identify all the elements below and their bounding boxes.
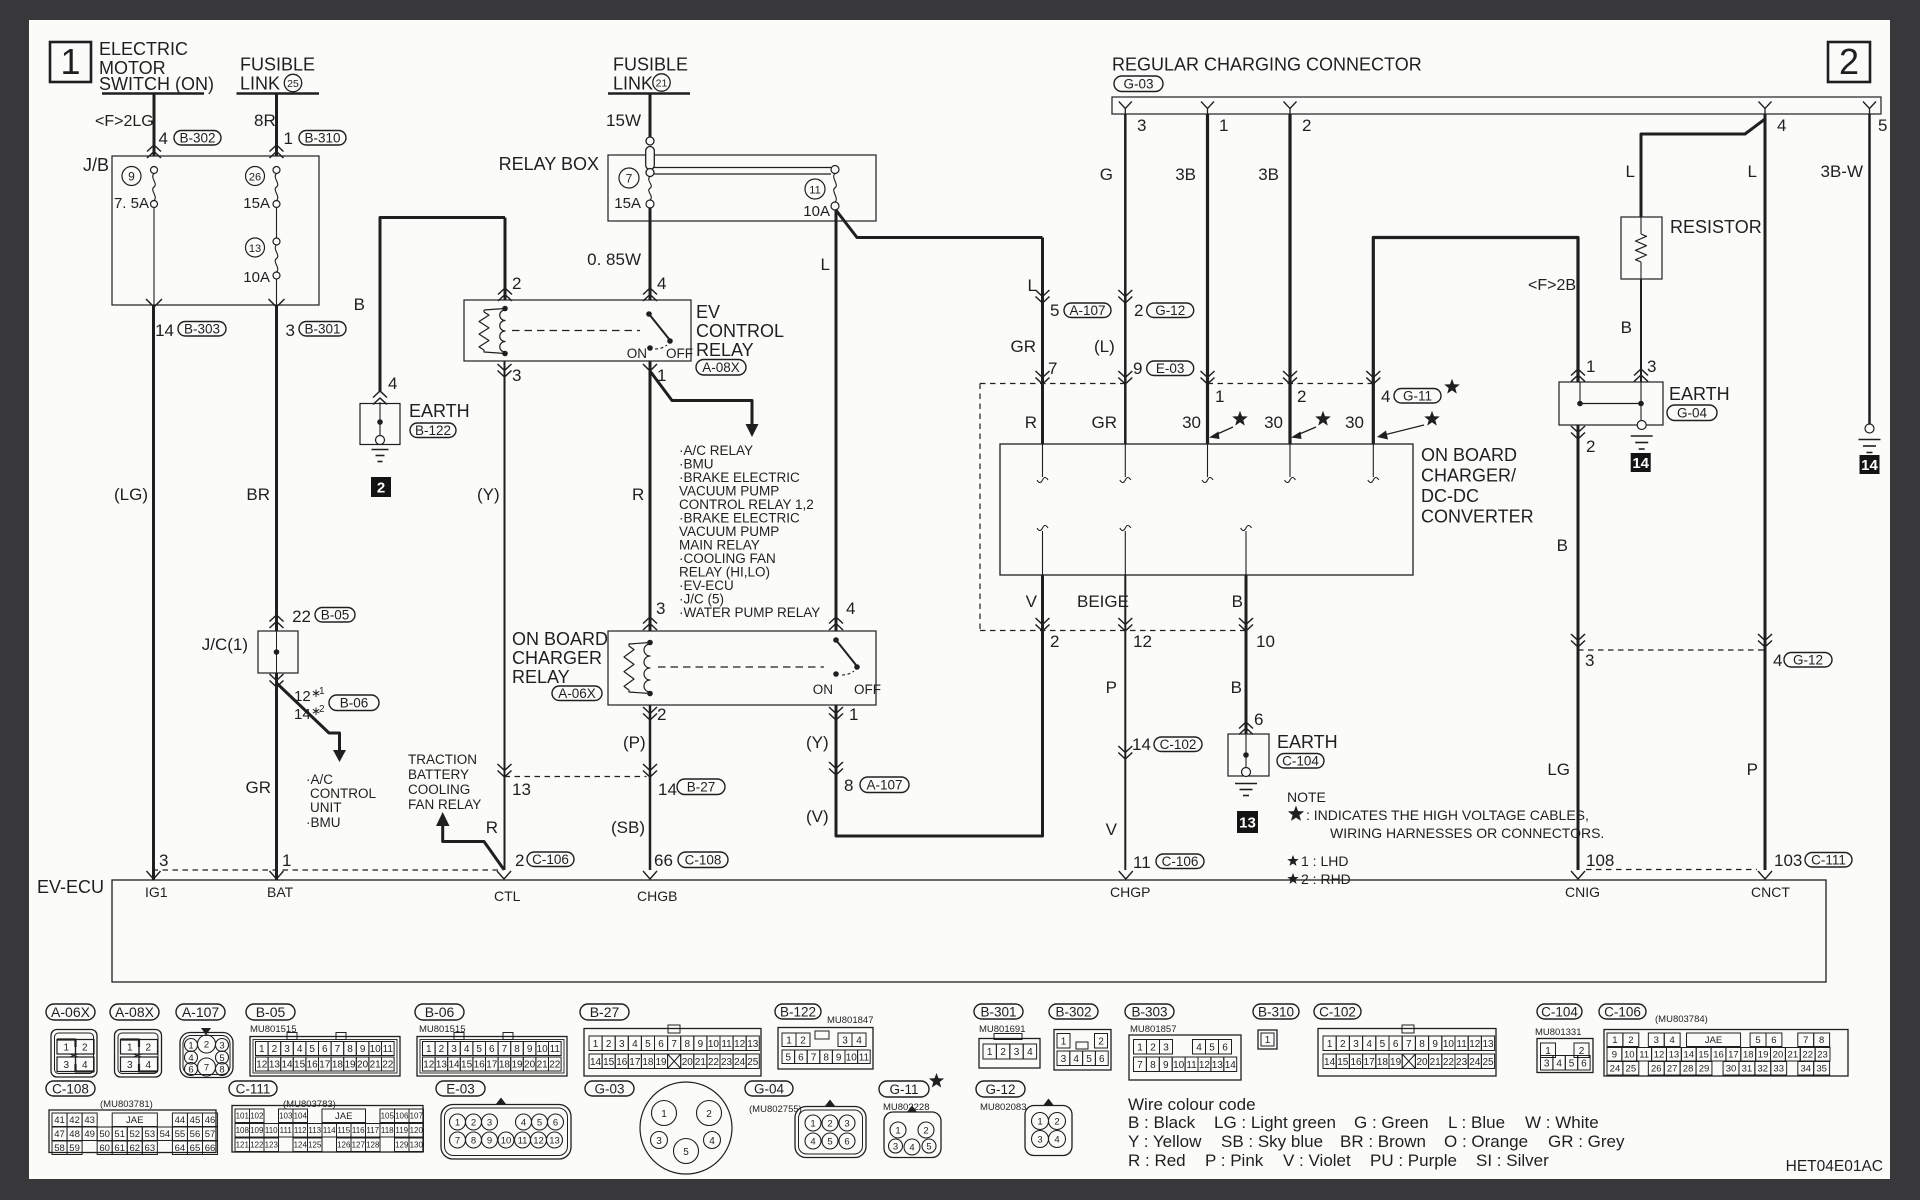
svg-text:118: 118 — [381, 1126, 394, 1135]
svg-text:6: 6 — [658, 1039, 664, 1050]
svg-text:MU802083: MU802083 — [980, 1102, 1026, 1113]
svg-text:16: 16 — [307, 1060, 319, 1071]
chevrons charger relay pin4 — [829, 617, 843, 624]
svg-text:26: 26 — [249, 172, 261, 184]
svg-text:3B-W: 3B-W — [1821, 162, 1864, 181]
svg-text:8: 8 — [684, 1039, 690, 1050]
svg-text:IG1: IG1 — [145, 884, 168, 900]
svg-text:14: 14 — [1683, 1050, 1694, 1061]
svg-text:21: 21 — [537, 1060, 549, 1071]
svg-text:1: 1 — [849, 705, 858, 724]
svg-text:4: 4 — [1073, 1054, 1079, 1065]
converter top pin at 1290 — [1289, 444, 1291, 477]
svg-text:5: 5 — [926, 1142, 931, 1153]
svg-text:114: 114 — [323, 1126, 336, 1135]
svg-text:BAT: BAT — [267, 884, 294, 900]
svg-text:22: 22 — [549, 1060, 561, 1071]
wire (Y) from EV control relay pin3 to CTL — [504, 361, 506, 870]
svg-text:35: 35 — [1816, 1064, 1827, 1075]
svg-text:15: 15 — [603, 1057, 615, 1068]
svg-text:TRACTION: TRACTION — [408, 752, 477, 767]
svg-text:66: 66 — [654, 851, 673, 870]
svg-text:19: 19 — [1390, 1057, 1402, 1068]
svg-text:15W: 15W — [606, 111, 641, 130]
svg-text:(L): (L) — [1094, 337, 1115, 356]
svg-text:E-03: E-03 — [1156, 361, 1185, 376]
svg-text:1: 1 — [1586, 357, 1595, 376]
chevrons converter shield pin2 — [1036, 618, 1050, 625]
svg-text:2: 2 — [1839, 41, 1859, 82]
svg-text:29: 29 — [1699, 1064, 1710, 1075]
svg-text:22: 22 — [1443, 1057, 1455, 1068]
earth C-104 — [1228, 734, 1269, 776]
svg-text:B-310: B-310 — [304, 131, 340, 146]
svg-text:4: 4 — [1670, 1035, 1675, 1046]
svg-text:59: 59 — [69, 1143, 80, 1154]
wire L from G-03 pin4 to resistor — [1641, 114, 1765, 217]
svg-text:15: 15 — [1698, 1050, 1709, 1061]
svg-text:3: 3 — [893, 1142, 898, 1153]
svg-text:13: 13 — [549, 1136, 560, 1147]
on board charger / DC-DC converter — [1000, 444, 1413, 575]
svg-text:B-06: B-06 — [425, 1004, 455, 1020]
svg-text:3: 3 — [1014, 1047, 1020, 1058]
svg-text:5: 5 — [1569, 1058, 1575, 1069]
wire 3B from G-03 pin1 — [1206, 114, 1209, 444]
chevrons earth G-04 pin3 — [1634, 369, 1648, 376]
connector C-111 pinout — [229, 1081, 277, 1096]
svg-text:63: 63 — [145, 1143, 156, 1154]
svg-text:5: 5 — [1086, 1054, 1092, 1065]
svg-text:51: 51 — [114, 1129, 125, 1140]
svg-text:9: 9 — [360, 1044, 366, 1055]
svg-text:22: 22 — [708, 1057, 720, 1068]
svg-text:0. 85W: 0. 85W — [587, 250, 641, 269]
fork pin5 — [1863, 102, 1876, 115]
connector pill B-302 — [174, 131, 221, 146]
connector pill B-122 (earth) — [410, 423, 456, 438]
svg-text:4: 4 — [1381, 387, 1390, 406]
wire fuse9 to J/B bottom — [153, 208, 155, 306]
svg-text:JAE: JAE — [1705, 1035, 1722, 1046]
svg-text:108: 108 — [236, 1126, 250, 1135]
svg-text:27: 27 — [1667, 1064, 1678, 1075]
branch arrow to A/C control unit and BMU — [277, 683, 340, 750]
regular charging connector G-03 bus — [1112, 97, 1881, 114]
svg-text:3: 3 — [451, 1044, 457, 1055]
connector chevrons B-05 — [270, 615, 284, 622]
svg-text:15: 15 — [294, 1060, 306, 1071]
chevrons G-12 pin3 — [1571, 634, 1585, 641]
chevrons earth B-122 — [373, 391, 387, 398]
svg-text:10: 10 — [501, 1136, 512, 1147]
svg-text:14: 14 — [281, 1060, 293, 1071]
connector B-302 pinout — [1049, 1004, 1098, 1019]
svg-text:W : White: W : White — [1525, 1113, 1599, 1132]
svg-text:8: 8 — [1819, 1035, 1824, 1046]
connector pill E-03 — [1147, 361, 1194, 376]
svg-text:50: 50 — [99, 1129, 110, 1140]
svg-text:103: 103 — [279, 1112, 293, 1121]
svg-text:E-03: E-03 — [446, 1081, 475, 1096]
svg-text:5: 5 — [476, 1044, 482, 1055]
svg-text:15: 15 — [461, 1060, 473, 1071]
svg-text:10: 10 — [846, 1052, 858, 1063]
svg-text:8: 8 — [1150, 1060, 1156, 1071]
svg-text:20: 20 — [1416, 1057, 1428, 1068]
wire G from G-03 pin3 — [1124, 114, 1127, 444]
svg-text:(LG): (LG) — [114, 485, 148, 504]
svg-text:2: 2 — [1054, 1117, 1059, 1128]
svg-text:CHARGER/: CHARGER/ — [1421, 466, 1516, 486]
svg-text:32: 32 — [1758, 1064, 1769, 1075]
svg-text:B: B — [1621, 318, 1632, 337]
connector G-11 pinout — [879, 1081, 929, 1097]
svg-text:19: 19 — [655, 1057, 667, 1068]
svg-text:3: 3 — [63, 1060, 69, 1071]
svg-text:13: 13 — [249, 243, 261, 255]
svg-text:115: 115 — [337, 1126, 350, 1135]
svg-text:23: 23 — [721, 1057, 733, 1068]
svg-text:4: 4 — [1054, 1135, 1059, 1146]
svg-text:4: 4 — [856, 1035, 862, 1046]
svg-text:1: 1 — [319, 686, 325, 697]
wire L from G-03 pin4 to CNCT — [1764, 114, 1767, 870]
svg-text:B: B — [1557, 536, 1568, 555]
svg-text:B-06: B-06 — [340, 696, 369, 711]
connector pill A-08X — [696, 360, 746, 376]
svg-text:53: 53 — [145, 1129, 156, 1140]
chevrons converter shield pin10 — [1239, 618, 1253, 625]
dashed line to converter shield — [979, 384, 981, 631]
svg-text:19: 19 — [511, 1060, 523, 1071]
resistor — [1621, 217, 1662, 279]
svg-text:V : Violet: V : Violet — [1283, 1151, 1351, 1170]
svg-text:3: 3 — [1353, 1039, 1359, 1050]
svg-text:LG : Light green: LG : Light green — [1214, 1113, 1336, 1132]
svg-text:7: 7 — [1048, 359, 1057, 378]
svg-text:47: 47 — [54, 1129, 65, 1140]
chevrons high-voltage pin2 — [1283, 371, 1297, 378]
converter top pin at 1042.5 — [1042, 444, 1044, 477]
svg-text:1: 1 — [1137, 1042, 1143, 1053]
svg-text:8: 8 — [347, 1044, 353, 1055]
svg-text:3: 3 — [1585, 651, 1594, 670]
wire fuse26 to fuse13 — [276, 208, 278, 239]
svg-text:12: 12 — [1469, 1039, 1481, 1050]
converter bottom pin at 1042.5 — [1037, 526, 1048, 531]
svg-text:24: 24 — [734, 1057, 746, 1068]
svg-text:9: 9 — [698, 1039, 704, 1050]
chevrons earth C-104 pin6 — [1239, 722, 1253, 729]
svg-text:12: 12 — [256, 1060, 268, 1071]
svg-text:14: 14 — [1861, 457, 1878, 474]
svg-text:21: 21 — [656, 78, 668, 90]
svg-text:G: G — [1100, 165, 1113, 184]
wire B from resistor to earth G-04 — [1640, 279, 1642, 382]
svg-text:1: 1 — [1037, 1117, 1042, 1128]
svg-text:12: 12 — [533, 1136, 544, 1147]
connector pill C-104 (earth) — [1277, 754, 1324, 769]
svg-text:2: 2 — [1586, 437, 1595, 456]
svg-text:2: 2 — [1297, 387, 1306, 406]
svg-text:21: 21 — [1788, 1050, 1799, 1061]
svg-text:45: 45 — [190, 1115, 201, 1126]
svg-text:OFF: OFF — [666, 346, 693, 361]
svg-text:5: 5 — [827, 1137, 832, 1148]
svg-text:B: B — [1231, 678, 1242, 697]
svg-text:5: 5 — [537, 1118, 542, 1129]
svg-text:RELAY BOX: RELAY BOX — [499, 154, 599, 174]
chevrons A-107 pin8 — [829, 762, 843, 769]
svg-text:11: 11 — [1133, 853, 1151, 872]
wire 2 into EV control relay coil — [504, 218, 507, 301]
svg-text:1 : LHD: 1 : LHD — [1301, 853, 1348, 869]
svg-text:7. 5A: 7. 5A — [114, 195, 149, 212]
svg-text:48: 48 — [69, 1129, 80, 1140]
connector pill C-108 at CHGB — [678, 852, 728, 868]
branch arrow to A/C relay list — [650, 371, 752, 424]
svg-text:2: 2 — [606, 1039, 612, 1050]
fuse 13 10A — [246, 238, 265, 257]
svg-text:C-106: C-106 — [1604, 1004, 1641, 1019]
wire BR to J/C(1) — [275, 305, 278, 631]
dashed connector line C-106 row — [505, 776, 647, 778]
joint connector J/C(1) — [258, 631, 298, 673]
svg-text:6: 6 — [844, 1137, 849, 1148]
svg-text:RELAY: RELAY — [696, 340, 754, 360]
svg-text:22: 22 — [382, 1060, 394, 1071]
svg-text:CONVERTER: CONVERTER — [1421, 507, 1534, 527]
svg-text:JAE: JAE — [126, 1115, 143, 1126]
svg-text:4: 4 — [159, 129, 168, 148]
svg-text:EARTH: EARTH — [409, 401, 470, 421]
svg-text:A-06X: A-06X — [51, 1004, 91, 1020]
svg-text:14: 14 — [658, 780, 677, 799]
svg-text:A-08X: A-08X — [115, 1004, 155, 1020]
svg-text:J/B: J/B — [83, 155, 109, 175]
svg-text:3: 3 — [1544, 1058, 1550, 1069]
svg-text:4: 4 — [145, 1060, 151, 1071]
svg-text:20: 20 — [1773, 1050, 1784, 1061]
connector C-106 pinout — [1599, 1004, 1646, 1019]
svg-text:G-03: G-03 — [594, 1081, 624, 1096]
svg-text:31: 31 — [1742, 1064, 1753, 1075]
svg-text:130: 130 — [410, 1141, 424, 1150]
svg-text:NOTE: NOTE — [1287, 789, 1326, 805]
svg-text:C-102: C-102 — [1160, 737, 1197, 752]
svg-text:2: 2 — [1050, 632, 1059, 651]
svg-text:21: 21 — [1430, 1057, 1442, 1068]
fuse 7 15A in relay box — [619, 168, 639, 188]
svg-text:3: 3 — [619, 1039, 625, 1050]
connector pill C-111 at CNCT — [1805, 853, 1852, 868]
svg-text:BATTERY: BATTERY — [408, 767, 469, 782]
svg-text:9: 9 — [836, 1052, 842, 1063]
dashed IG1 to CTL — [153, 869, 504, 871]
svg-text:G-11: G-11 — [889, 1082, 918, 1097]
svg-text:7: 7 — [455, 1136, 460, 1147]
svg-text:128: 128 — [366, 1141, 380, 1150]
svg-text:OFF: OFF — [854, 682, 881, 697]
svg-text:3: 3 — [159, 851, 168, 870]
svg-text:20: 20 — [357, 1060, 369, 1071]
svg-text:8: 8 — [1419, 1039, 1425, 1050]
svg-text:13: 13 — [1482, 1039, 1494, 1050]
svg-text:109: 109 — [250, 1126, 264, 1135]
svg-text:111: 111 — [280, 1126, 293, 1135]
svg-text:6: 6 — [1581, 1058, 1587, 1069]
svg-text:4: 4 — [909, 1143, 914, 1154]
svg-text:2: 2 — [1340, 1039, 1346, 1050]
chevrons charger relay pin3 — [643, 617, 657, 624]
svg-text:110: 110 — [265, 1126, 278, 1135]
svg-text:ON: ON — [627, 346, 647, 361]
svg-text:1: 1 — [60, 41, 80, 82]
relay box — [608, 155, 876, 221]
svg-text:23: 23 — [1456, 1057, 1468, 1068]
svg-text:117: 117 — [366, 1126, 379, 1135]
svg-text:34: 34 — [1800, 1064, 1811, 1075]
svg-text:C-106: C-106 — [532, 852, 569, 867]
svg-text:1: 1 — [63, 1042, 69, 1053]
svg-text:BR: BR — [246, 485, 270, 504]
svg-text:B-302: B-302 — [1055, 1004, 1091, 1019]
fuse 9 7.5A — [122, 167, 141, 186]
svg-text:5: 5 — [645, 1039, 651, 1050]
svg-text:122: 122 — [250, 1141, 264, 1150]
svg-text:9: 9 — [527, 1044, 533, 1055]
svg-text:(Y): (Y) — [806, 733, 829, 752]
svg-text:18: 18 — [499, 1060, 511, 1071]
svg-text:6: 6 — [1771, 1035, 1776, 1046]
svg-text:GR: GR — [1092, 413, 1118, 432]
svg-text:2: 2 — [1302, 116, 1311, 135]
connector pill G-11 — [1394, 389, 1441, 404]
svg-text:P: P — [1106, 678, 1117, 697]
junction block J/B — [112, 156, 319, 305]
connector B-27 pinout — [580, 1004, 629, 1020]
svg-text:2: 2 — [319, 704, 325, 715]
sheet marker 2 — [371, 477, 391, 497]
svg-text:2: 2 — [204, 1040, 209, 1051]
svg-text:9: 9 — [1163, 1060, 1169, 1071]
svg-text:4: 4 — [464, 1044, 470, 1055]
J/B exit chevrons — [146, 299, 162, 307]
svg-text:7: 7 — [1137, 1060, 1143, 1071]
svg-text:22: 22 — [1802, 1050, 1813, 1061]
svg-text:8: 8 — [844, 776, 853, 795]
svg-text:121: 121 — [236, 1141, 250, 1150]
svg-text:11: 11 — [1456, 1039, 1467, 1050]
svg-text:7: 7 — [1406, 1039, 1412, 1050]
svg-text:6: 6 — [322, 1044, 328, 1055]
svg-text:2: 2 — [1000, 1047, 1006, 1058]
svg-text:103: 103 — [1774, 851, 1802, 870]
svg-text:13: 13 — [747, 1039, 759, 1050]
svg-text:16: 16 — [1350, 1057, 1362, 1068]
svg-text:46: 46 — [205, 1115, 216, 1126]
svg-text:13: 13 — [436, 1060, 448, 1071]
svg-text:44: 44 — [175, 1115, 186, 1126]
svg-text:B-302: B-302 — [179, 131, 215, 146]
connector G-12 pinout — [976, 1081, 1025, 1097]
svg-text:126: 126 — [337, 1141, 351, 1150]
svg-text:9: 9 — [1432, 1039, 1438, 1050]
svg-text:5: 5 — [1755, 1035, 1760, 1046]
svg-text:1: 1 — [259, 1044, 265, 1055]
wire L from relay box to A-107 pin5 — [1041, 238, 1044, 445]
chevrons below earth G-04 — [1571, 426, 1585, 433]
svg-text:1: 1 — [786, 1035, 792, 1046]
wire R from EV control relay pin1 — [649, 361, 652, 631]
connector pill G-12 (right) — [1784, 653, 1832, 668]
svg-text:5: 5 — [1209, 1042, 1215, 1053]
svg-text:1: 1 — [593, 1039, 599, 1050]
connector pill B-27 — [677, 779, 725, 795]
chevrons G-12 pin2 — [1118, 290, 1132, 297]
svg-text:66: 66 — [205, 1143, 216, 1154]
svg-text:101: 101 — [236, 1112, 250, 1121]
svg-text:7: 7 — [1803, 1035, 1808, 1046]
svg-text:1: 1 — [987, 1047, 993, 1058]
svg-text:62: 62 — [129, 1143, 140, 1154]
svg-text:G-11: G-11 — [1403, 389, 1432, 404]
svg-text:24: 24 — [1469, 1057, 1481, 1068]
svg-text:13: 13 — [269, 1060, 281, 1071]
svg-text:C-106: C-106 — [1162, 854, 1199, 869]
svg-text:B: B — [1232, 592, 1243, 611]
svg-text:25: 25 — [287, 78, 299, 90]
svg-text:A-107: A-107 — [866, 778, 902, 793]
svg-text:4: 4 — [657, 274, 666, 293]
svg-text:6: 6 — [489, 1044, 495, 1055]
svg-text:REGULAR CHARGING CONNECTOR: REGULAR CHARGING CONNECTOR — [1112, 55, 1422, 75]
svg-text:C-111: C-111 — [1811, 853, 1846, 868]
svg-text:14: 14 — [155, 321, 174, 340]
svg-text:(MU803781): (MU803781) — [100, 1099, 153, 1110]
svg-text:B-05: B-05 — [321, 608, 350, 623]
wire B from EV control relay to earth B-122 — [380, 218, 505, 393]
wire B LG from earth G-04 to CNIG — [1577, 425, 1580, 870]
svg-text:5: 5 — [309, 1044, 315, 1055]
star arrow pin2 — [1315, 411, 1331, 426]
connector B-301 pinout — [974, 1004, 1023, 1019]
connector pill C-106 at CHGP — [1156, 854, 1204, 869]
chevrons A-107 pin5 — [1036, 290, 1050, 297]
svg-text:11: 11 — [721, 1039, 732, 1050]
svg-text:R: R — [486, 818, 498, 837]
svg-text:4: 4 — [1366, 1039, 1372, 1050]
svg-text:11: 11 — [550, 1044, 561, 1055]
svg-text:7: 7 — [204, 1063, 209, 1074]
chevron IG1 — [147, 871, 161, 879]
svg-text:MU801515: MU801515 — [419, 1024, 465, 1035]
svg-text:7: 7 — [671, 1039, 677, 1050]
svg-text:·A/C: ·A/C — [306, 772, 333, 787]
svg-text:L: L — [1028, 276, 1037, 295]
svg-text:116: 116 — [352, 1126, 365, 1135]
svg-text:4: 4 — [810, 1137, 815, 1148]
chevrons converter shield pin12 — [1118, 618, 1132, 625]
svg-text:52: 52 — [129, 1129, 140, 1140]
svg-text:12: 12 — [734, 1039, 746, 1050]
svg-text:LINK: LINK — [240, 74, 280, 94]
svg-text:2: 2 — [923, 1126, 928, 1137]
svg-text:<F>2LG: <F>2LG — [95, 113, 154, 130]
svg-text:16: 16 — [1713, 1050, 1724, 1061]
svg-text:6: 6 — [1222, 1042, 1228, 1053]
